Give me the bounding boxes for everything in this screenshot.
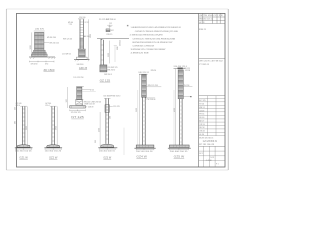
svg-text:120 125 258: 120 125 258	[73, 77, 83, 79]
D column ticks	[101, 45, 104, 60]
col3 label underline	[103, 158, 111, 160]
header column dividers	[202, 14, 204, 24]
svg-text:CB 48: CB 48	[199, 110, 204, 112]
T2 footing	[169, 145, 189, 148]
drawing frame	[17, 13, 226, 167]
C hatch box	[106, 29, 110, 32]
ground hatch	[30, 57, 56, 59]
svg-text:OM 42: OM 42	[199, 131, 204, 133]
col2 right dim line	[56, 106, 58, 148]
T2 top dark bar	[178, 68, 183, 70]
paper edge right	[227, 9, 229, 170]
E plate	[70, 106, 86, 108]
svg-text:BR 240 125: BR 240 125	[50, 43, 60, 45]
svg-text:PR 35: PR 35	[199, 114, 204, 116]
notes bullet	[127, 25, 128, 26]
T1 column left line	[142, 97, 144, 145]
B column left line	[79, 19, 81, 49]
svg-text:TW 93: TW 93	[199, 124, 204, 126]
T1 footing	[136, 145, 154, 148]
T1 lower leader line	[145, 97, 155, 99]
T2 lower leader line	[183, 96, 190, 98]
svg-text:3600: 3600	[56, 126, 58, 130]
T1 mid leader line	[146, 86, 161, 88]
svg-text:WE 125 RC 48 TSE 602: WE 125 RC 48 TSE 602	[199, 61, 223, 63]
svg-text:4500: 4500	[174, 108, 176, 112]
svg-text:CWSE125.TRES05 RWE325.BWEQ125: CWSE125.TRES05 RWE325.BWEQ125 08E	[135, 31, 179, 33]
col1 bottom dim line	[15, 148, 31, 150]
svg-text:NU 58: NU 58	[199, 127, 204, 129]
svg-text:A6 200: A6 200	[84, 35, 90, 38]
svg-text:SD 60: SD 60	[199, 117, 204, 119]
T1 hatched shaft	[142, 75, 147, 98]
svg-text:GRTE 456 CO 1 8: GRTE 456 CO 1 8	[199, 15, 223, 17]
T1 footing ticks	[140, 145, 149, 148]
svg-text:N 25: N 25	[210, 157, 214, 159]
revision table dividers	[206, 96, 208, 136]
col3 leader 1	[109, 95, 112, 97]
paper edge bottom	[6, 169, 228, 171]
svg-text:125 250 125: 125 250 125	[71, 112, 81, 114]
E hatched column	[77, 87, 82, 99]
svg-text:200 600 200 35: 200 600 200 35	[170, 151, 188, 153]
svg-text:GZ 125 806 31: GZ 125 806 31	[203, 141, 218, 143]
svg-text:PT 2685 13: PT 2685 13	[199, 64, 209, 66]
svg-text:T 258 09: T 258 09	[86, 107, 93, 109]
svg-text:4200: 4200	[99, 128, 101, 132]
svg-text:180: 180	[15, 121, 17, 124]
svg-text:RW 125 258: RW 125 258	[148, 85, 158, 87]
E faint line right	[82, 91, 96, 93]
C symbol marks	[107, 25, 112, 29]
col1 bottom dim ticks	[15, 148, 31, 150]
bottom dim line	[30, 61, 55, 63]
T1 top tick line	[139, 73, 147, 75]
C long base line	[97, 38, 129, 40]
svg-text:W 25: W 25	[90, 89, 94, 91]
col3 box hatch	[105, 106, 109, 111]
col2 bottom dim ticks	[45, 148, 61, 150]
svg-text:RT 26: RT 26	[199, 104, 204, 106]
svg-text:T 25: T 25	[69, 24, 73, 26]
T1 column stirrup ticks	[142, 101, 145, 141]
svg-text:500: 500	[66, 99, 68, 102]
T2 lower leader arrow	[190, 96, 192, 97]
svg-text:240 360: 240 360	[77, 64, 84, 66]
col3 stirrup ticks	[106, 115, 109, 139]
svg-text:G 306: G 306	[206, 160, 213, 162]
T2 left dim line	[175, 69, 177, 149]
revision table row lines	[199, 97, 225, 99]
svg-text:RW 25: RW 25	[107, 34, 113, 36]
svg-text:RW 26: RW 26	[151, 70, 156, 72]
B footing hatch block	[79, 50, 86, 57]
col3 footing ticks	[103, 144, 111, 147]
T2 ground line	[168, 147, 191, 149]
svg-text:250 125: 250 125	[119, 40, 121, 46]
svg-text:BWE 125 08: BWE 125 08	[85, 103, 95, 105]
col1 top tick	[20, 105, 27, 107]
header row lines	[199, 16, 225, 18]
col1 right dim line	[27, 106, 29, 148]
T1 bottom dim ticks	[136, 149, 154, 151]
svg-text:SC 1: SC 1	[199, 153, 203, 155]
detail A label underline	[44, 71, 55, 73]
col1 footing ticks	[20, 145, 27, 148]
col2 footing	[47, 145, 60, 148]
col2 column left line	[51, 106, 53, 144]
leader line mid	[44, 42, 49, 44]
T2 column stirrup ticks	[179, 102, 183, 142]
D column left line	[100, 40, 102, 65]
B plate line	[78, 48, 85, 51]
svg-text:RW 258 0: RW 258 0	[112, 96, 120, 98]
svg-text:3300: 3300	[108, 53, 110, 57]
col2 bottom dim line	[45, 148, 61, 150]
pier brick shaft	[34, 32, 44, 50]
svg-text:IRSE 25: IRSE 25	[199, 29, 206, 31]
E junction tick	[75, 98, 83, 100]
svg-text:AE 27: AE 27	[199, 120, 204, 123]
T1 bottom dim line	[136, 148, 154, 150]
svg-text:BCW 325 801 5: BCW 325 801 5	[199, 138, 213, 140]
col3 ground line	[98, 147, 117, 149]
col3 embedded box	[105, 105, 109, 113]
B footing base	[76, 57, 87, 59]
ground line	[29, 56, 55, 58]
E label underline	[71, 118, 84, 120]
svg-text:240 370: 240 370	[35, 29, 44, 31]
T2 top tick line	[174, 68, 186, 70]
col2 label underline	[49, 158, 57, 160]
T1 label underline	[136, 157, 147, 159]
col3 right ext line	[123, 128, 125, 155]
svg-text:RW 260 5: RW 260 5	[104, 74, 112, 76]
svg-text:RW 125 06: RW 125 06	[63, 39, 72, 41]
B column right line	[82, 19, 84, 49]
E bottom dim line	[70, 109, 86, 111]
E bottom dim ticks	[70, 110, 86, 112]
T2 hatched shaft	[178, 70, 183, 99]
col3 left dim line	[99, 112, 101, 146]
col2 ground line	[44, 147, 62, 149]
svg-text:LE 36: LE 36	[199, 134, 204, 136]
D dim tick	[114, 45, 117, 47]
col1 footing	[17, 145, 30, 148]
svg-text:CW 258 06: CW 258 06	[146, 99, 155, 101]
E right leader mark	[82, 88, 90, 90]
svg-text:WE 258 0: WE 258 0	[107, 70, 115, 72]
col2 top tick	[50, 105, 57, 107]
svg-text:C20 4: C20 4	[45, 105, 50, 107]
T2 bottom dim line	[169, 148, 188, 150]
svg-text:W 258: W 258	[185, 70, 190, 72]
svg-text:3600: 3600	[26, 126, 28, 130]
B splice zone dense ticks	[80, 38, 84, 48]
svg-text:P 1: P 1	[216, 164, 219, 166]
B label underline	[79, 69, 87, 71]
T2 column right line	[181, 99, 183, 145]
col3 footing	[101, 144, 114, 147]
B right dim line	[87, 19, 89, 59]
svg-text:300: 300	[110, 116, 112, 119]
D label underline	[100, 81, 111, 83]
col1 ground line	[15, 147, 33, 149]
svg-text:W 258: W 258	[184, 85, 189, 87]
svg-text:WT 285 196 028: WT 285 196 028	[199, 144, 214, 146]
title block left border	[198, 13, 200, 167]
svg-text:EC 125: EC 125	[199, 100, 205, 102]
svg-text:150 350 150 26: 150 350 150 26	[45, 151, 62, 153]
col3 top tick	[104, 97, 111, 99]
D dim line 1	[109, 41, 111, 64]
col1 column right line	[24, 106, 26, 144]
svg-text:350: 350	[95, 140, 97, 143]
section line above signature row	[199, 57, 225, 59]
svg-text:370 490: 370 490	[31, 64, 38, 66]
D column right line	[103, 40, 105, 65]
E plate end ticks	[71, 106, 84, 108]
B top tick	[78, 18, 85, 20]
D footing hatch	[100, 65, 107, 72]
paper edge left	[5, 9, 7, 170]
svg-text:ZD 125 RW 258 06: ZD 125 RW 258 06	[99, 19, 117, 21]
col1 label underline	[19, 158, 27, 160]
svg-text:WE 51: WE 51	[199, 107, 204, 109]
section line above revision table	[199, 95, 225, 97]
T2 label underline	[174, 157, 185, 159]
bottom dim ticks	[30, 61, 55, 63]
left dim line	[31, 32, 33, 57]
svg-text:200 400 200 31: 200 400 200 31	[99, 151, 115, 153]
T2 mid leader line	[183, 86, 192, 88]
pier step 2	[32, 52, 46, 54]
col2 footing ticks	[50, 145, 57, 148]
T1 left dim line	[138, 74, 140, 148]
svg-text:HC 28: HC 28	[199, 22, 204, 24]
svg-text:240 370 24: 240 370 24	[138, 72, 149, 74]
pier step 1	[33, 50, 45, 52]
B ground hatch	[75, 60, 89, 62]
col1 stirrup ticks	[22, 109, 25, 141]
svg-text:3900: 3900	[136, 108, 138, 112]
svg-text:4.BWE125 85E: 4.BWE125 85E	[131, 53, 150, 55]
col3 column right line	[108, 99, 110, 144]
svg-text:B12: B12	[111, 30, 114, 32]
svg-text:370: 370	[45, 64, 48, 66]
pier base	[31, 54, 47, 56]
T2 footing ticks	[173, 145, 185, 148]
svg-text:BWSE258.ERWE125 08.RWES21W: BWSE258.ERWE125 08.RWES21W	[133, 42, 174, 44]
svg-text:2600: 2600	[90, 34, 92, 38]
bottom grid h-lines	[199, 150, 225, 152]
svg-text:BW 234 125 12: BW 234 125 12	[199, 19, 214, 21]
svg-text:C20 125: C20 125	[113, 106, 120, 108]
svg-text:3.RWSE125 CWSE258.96BW: 3.RWSE125 CWSE258.96BW	[131, 49, 167, 51]
T1 ground line	[134, 147, 155, 149]
col3 column left line	[105, 99, 107, 144]
svg-text:150 350 150 26: 150 350 150 26	[15, 151, 32, 153]
col2 column right line	[54, 106, 56, 144]
svg-text:CESW125.TWES258 096.RWE3025NB: CESW125.TWES258 096.RWE3025NB	[133, 38, 176, 40]
T1 left dim line 2	[137, 90, 139, 148]
T2 left dim line 2	[173, 90, 175, 148]
svg-text:200 500 200 28: 200 500 200 28	[136, 151, 153, 153]
B column cross ticks	[80, 22, 84, 38]
svg-text:240: 240	[15, 107, 17, 110]
col1 column left line	[21, 106, 23, 144]
svg-text:3300: 3300	[117, 46, 119, 50]
pier top tick line	[34, 30, 45, 32]
svg-text:M5 SE 240: M5 SE 240	[47, 37, 56, 39]
D left end tick	[101, 39, 103, 40]
E left dim line	[67, 87, 69, 108]
svg-text:CWSE325 0.RW15E: CWSE325 0.RW15E	[133, 46, 155, 48]
E top tick line	[76, 86, 84, 88]
page background	[0, 0, 230, 184]
T2 column left line	[178, 99, 180, 145]
E box	[76, 100, 83, 105]
svg-text:2.WES1500 RESW250.WQH8: 2.WES1500 RESW250.WQH8	[130, 35, 164, 37]
col3 leader 2	[109, 106, 112, 108]
svg-text:1200: 1200	[30, 45, 32, 49]
col2 stirrup ticks	[52, 109, 55, 141]
paper edge top	[6, 8, 228, 10]
bottom grid v-lines	[203, 146, 205, 167]
col3 bottom dim line	[99, 148, 115, 150]
T1 column right line	[144, 97, 146, 145]
D dim line 2	[114, 46, 116, 62]
E box inner marks	[76, 100, 83, 105]
svg-text:C20 4: C20 4	[16, 105, 21, 107]
E plate mid line	[70, 106, 86, 108]
svg-text:C15 WE 25: C15 WE 25	[62, 53, 71, 55]
T2 bottom dim ticks	[169, 149, 188, 151]
line above bottom grid	[199, 145, 225, 147]
col3 bottom dim ticks	[99, 148, 115, 150]
B ground line	[74, 59, 90, 61]
svg-text:1.HEBKRW240X370.MU10.M5.WNBRGZ: 1.HEBKRW240X370.MU10.M5.WNBRGZ125 RHESW …	[131, 27, 182, 29]
